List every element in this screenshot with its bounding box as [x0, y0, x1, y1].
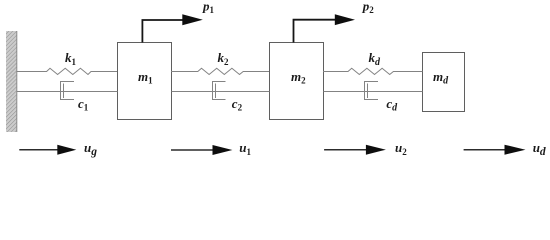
mass md box	[423, 53, 465, 112]
svg-text:ud: ud	[533, 140, 546, 158]
mass m2 box	[270, 43, 324, 120]
svg-text:u1: u1	[239, 140, 251, 157]
svg-text:k2: k2	[218, 50, 230, 67]
displacement ug arrow	[19, 145, 76, 155]
damper cd piston	[367, 84, 369, 99]
displacement u2 arrow	[324, 145, 386, 155]
spring kd	[323, 68, 423, 74]
spring k2	[171, 68, 269, 74]
damper cd cylinder	[365, 82, 379, 100]
spring k1	[17, 68, 117, 74]
damper c1 rod	[17, 91, 118, 93]
svg-text:u2: u2	[395, 140, 407, 157]
mass m1 box	[118, 43, 172, 120]
svg-text:k1: k1	[65, 50, 77, 67]
damper c1 cylinder	[61, 82, 75, 100]
damper c2 rod	[172, 91, 270, 93]
svg-text:c1: c1	[78, 96, 89, 113]
damper c2 piston	[215, 84, 217, 99]
force p1 arrow	[142, 14, 202, 42]
displacement ud arrow	[464, 145, 526, 155]
svg-text:cd: cd	[386, 96, 398, 114]
svg-text:kd: kd	[369, 50, 382, 68]
svg-text:ug: ug	[84, 140, 97, 158]
svg-text:p1: p1	[202, 0, 215, 15]
damper c2 cylinder	[213, 82, 226, 100]
displacement u1 arrow	[171, 145, 232, 155]
damper c1 piston	[63, 84, 65, 99]
force p2 arrow	[294, 14, 356, 42]
damper cd rod	[324, 91, 423, 93]
svg-text:p2: p2	[362, 0, 375, 15]
svg-text:c2: c2	[232, 96, 243, 113]
wall	[6, 31, 17, 132]
